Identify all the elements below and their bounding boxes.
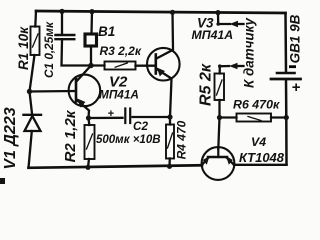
- node dot terminal 2 bend: [218, 64, 222, 68]
- svg-text:GB1 9В: GB1 9В: [288, 14, 303, 63]
- svg-text:МП41А: МП41А: [99, 88, 139, 102]
- battery GB1 long positive plate: [271, 78, 301, 81]
- wire right side battery to bottom corner: [285, 80, 288, 165]
- earphone B1 body: [85, 34, 97, 46]
- node dot terminal 1 bend: [216, 22, 220, 26]
- wire sensor terminal 2: [220, 66, 229, 74]
- node dot V2 emitter: [86, 115, 91, 120]
- capacitor C1: [56, 34, 75, 36]
- svg-text:R5 2к: R5 2к: [198, 63, 215, 106]
- svg-text:R3 2,2к: R3 2,2к: [100, 44, 142, 58]
- node dot terminal 1 top: [215, 10, 220, 15]
- wire V2 collector: [77, 66, 91, 82]
- resistor R1 body: [31, 27, 40, 56]
- wire top rail: [36, 11, 286, 13]
- svg-text:+: +: [108, 108, 115, 120]
- wire R1 to base node: [30, 55, 35, 92]
- node dot B1 bottom: [88, 63, 93, 68]
- wire V3 emitter down to node: [157, 69, 172, 117]
- label battery minus: [289, 65, 296, 68]
- svg-text:МП41А: МП41А: [192, 28, 234, 42]
- wire R4 bottom lead: [168, 159, 171, 167]
- wire V3 collector to top rail: [157, 12, 174, 58]
- svg-text:С1 0,25мк: С1 0,25мк: [42, 21, 56, 78]
- resistor R6 body: [237, 114, 272, 122]
- wire left side top corner to R1: [34, 11, 37, 27]
- capacitor C2: [124, 109, 126, 124]
- wire sensor terminal 1: [218, 13, 230, 24]
- wire B1 top lead: [90, 12, 93, 34]
- wire R6 to right wire: [271, 116, 286, 118]
- svg-text:R6 470к: R6 470к: [233, 98, 280, 112]
- node dot R4 top: [167, 114, 172, 119]
- wire C2 to R4 node: [133, 116, 171, 118]
- wire R2 top lead: [87, 118, 90, 125]
- wire R5 bottom to node: [218, 100, 220, 118]
- resistor R4 body: [166, 125, 174, 159]
- svg-text:500мк ×10В: 500мк ×10В: [96, 134, 161, 146]
- wire C1 top lead: [61, 11, 63, 33]
- svg-text:V4: V4: [251, 135, 266, 149]
- node dot R2 bottom: [85, 165, 90, 170]
- wire V4 collector to right corner: [234, 164, 287, 166]
- resistor R2 body: [85, 125, 95, 159]
- transistor V2: [69, 75, 101, 107]
- svg-text:R1 10к: R1 10к: [16, 26, 31, 70]
- smudge bottom left corner: [0, 178, 5, 184]
- node dot C1 top: [59, 9, 64, 14]
- arrow terminal 2: [229, 63, 238, 69]
- wire node to R6: [220, 116, 237, 118]
- node dot R6 right: [284, 115, 289, 120]
- wire bottom rail: [29, 165, 203, 168]
- wire B1 bottom lead: [90, 46, 92, 66]
- node dot R4 bottom: [167, 164, 172, 169]
- wire V4 base lead: [218, 118, 219, 150]
- resistor R3 body: [105, 62, 136, 70]
- battery GB1 short negative plate: [277, 72, 295, 75]
- node dot R5 bottom: [217, 115, 222, 120]
- wire V2 emitter: [77, 100, 89, 118]
- wire right side from rail to battery: [284, 13, 287, 72]
- svg-text:К датчику: К датчику: [242, 17, 257, 88]
- transistor V3: [147, 48, 180, 81]
- node dot V3 collector top: [170, 10, 175, 15]
- wire R2 bottom lead: [88, 159, 89, 167]
- wire base node to diode: [30, 92, 33, 114]
- arrow terminal 1: [230, 21, 239, 27]
- wire node to R3: [91, 64, 105, 66]
- wire V4 collector lead: [227, 158, 235, 165]
- wire C1 bottom lead to node: [62, 40, 92, 65]
- wire V2 emitter node to C2: [89, 117, 123, 119]
- wire diode to bottom rail: [29, 131, 32, 168]
- svg-text:+: +: [292, 79, 301, 96]
- wire V2 base line: [30, 90, 76, 93]
- resistor R5 body: [215, 74, 225, 101]
- transistor V4: [202, 147, 235, 180]
- svg-text:V1 Д223: V1 Д223: [2, 107, 19, 169]
- wire R4 top lead: [169, 117, 171, 125]
- svg-text:КТ1048: КТ1048: [239, 150, 285, 165]
- diode V1: [24, 114, 42, 116]
- wire V4 emitter to bottom rail: [202, 158, 209, 165]
- svg-text:R4 470: R4 470: [174, 120, 188, 159]
- svg-text:B1: B1: [98, 24, 115, 39]
- svg-text:R2 1,2к: R2 1,2к: [62, 109, 79, 162]
- node dot B1 top: [89, 9, 94, 14]
- svg-text:С2: С2: [133, 120, 148, 133]
- wire R3 to V3 base: [136, 65, 156, 67]
- node dot V2 base: [27, 89, 32, 94]
